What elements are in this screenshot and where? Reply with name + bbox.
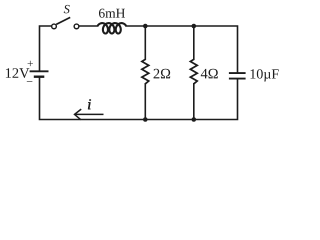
current arrow shaft: [75, 113, 104, 115]
wire capacitor to bottom-right corner to battery: [40, 78, 238, 120]
wire inductor to top-right corner down to capacitor: [126, 26, 237, 72]
current arrow head: [75, 109, 82, 120]
switch S terminal circles: [52, 24, 79, 29]
junction dot bottom 4-ohm node: [192, 117, 197, 122]
resistor 2-ohm zigzag: [142, 59, 149, 84]
current label i: [88, 99, 91, 109]
battery negative plate: [34, 75, 45, 77]
battery plus sign: [28, 61, 33, 66]
switch S blade: [56, 17, 70, 24]
wire 4-ohm branch top: [193, 26, 195, 59]
resistor label 2-ohm: [154, 69, 171, 79]
wire 2-ohm branch bottom: [144, 84, 146, 120]
junction dot top 4-ohm node: [192, 24, 197, 29]
capacitor label 10uF: [251, 69, 279, 81]
capacitor top plate: [229, 72, 246, 74]
wire top-left to battery: [40, 26, 52, 70]
junction dot bottom 2-ohm node: [143, 117, 148, 122]
inductor 6mH coil: [98, 23, 127, 33]
resistor label 4-ohm: [201, 69, 218, 79]
inductor label 6mH: [99, 9, 125, 18]
resistor 4-ohm zigzag: [190, 59, 197, 84]
battery label 12V: [6, 68, 30, 78]
wire 2-ohm branch top: [144, 26, 146, 59]
wire switch to inductor: [79, 25, 97, 27]
capacitor bottom plate: [229, 78, 246, 80]
battery positive plate: [30, 70, 49, 72]
wire 4-ohm branch bottom: [193, 84, 195, 120]
junction dot top 2-ohm node: [143, 24, 148, 29]
switch label S: [64, 5, 70, 13]
battery minus sign: [27, 80, 33, 83]
